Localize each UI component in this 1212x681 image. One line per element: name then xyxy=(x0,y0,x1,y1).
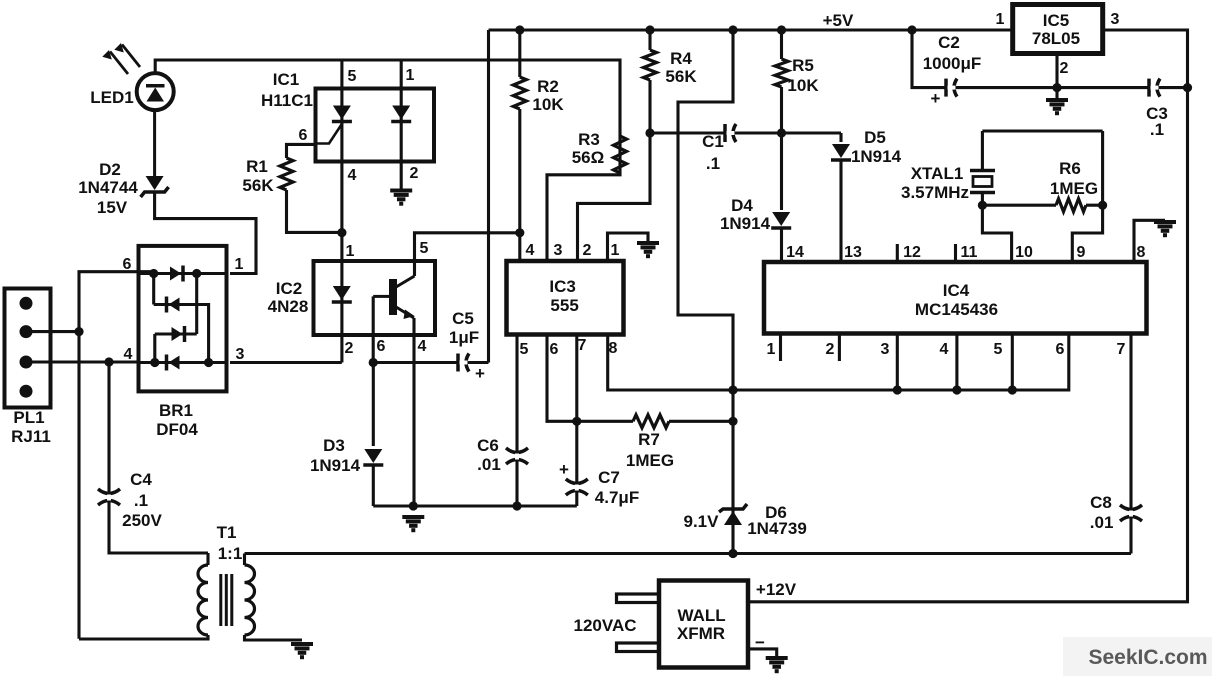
svg-text:R5: R5 xyxy=(792,56,814,75)
junction node xtal left xyxy=(978,201,987,210)
photo-SCR inside IC1 xyxy=(316,106,352,144)
junction node rail/R2/IC3 pin4 xyxy=(515,228,524,237)
pin 8 IC4 to ground xyxy=(1134,220,1165,262)
svg-text:12: 12 xyxy=(903,244,921,261)
svg-text:3.57MHz: 3.57MHz xyxy=(901,183,969,202)
zener D6 1N4739 9.1V xyxy=(684,503,807,538)
capacitor C5 1uF xyxy=(373,309,488,383)
svg-text:10K: 10K xyxy=(787,76,819,95)
wire: bottom ground rail (D3 to C7) xyxy=(373,504,577,507)
svg-text:R7: R7 xyxy=(638,430,660,449)
wire: IC3 pin 6 jog xyxy=(547,335,577,422)
photodiode inside IC2 xyxy=(333,286,351,300)
svg-text:3: 3 xyxy=(881,341,890,358)
junction node R7 right xyxy=(728,417,737,426)
diode D4 1N914 xyxy=(720,133,791,262)
junction node IC5 pin2 / rail xyxy=(1052,83,1061,92)
regulator IC5 78L05 xyxy=(1013,5,1103,54)
wire: C2/C3 rail xyxy=(912,30,1188,88)
svg-text:4: 4 xyxy=(526,242,535,259)
crystal XTAL1 3.57MHz xyxy=(901,131,1103,262)
wire: BR1 row4 pin4-pin3 with diode xyxy=(139,361,227,364)
svg-text:56K: 56K xyxy=(665,67,697,86)
junction node R2 top on +5V bus xyxy=(515,25,524,34)
svg-text:R6: R6 xyxy=(1059,159,1081,178)
svg-text:1: 1 xyxy=(611,242,620,259)
pin 5 IC4 xyxy=(1011,334,1014,391)
svg-text:6: 6 xyxy=(550,341,559,358)
junction node jog top on +5V bus xyxy=(728,25,737,34)
svg-text:1N914: 1N914 xyxy=(720,214,771,233)
svg-text:+12V: +12V xyxy=(756,580,797,599)
svg-text:R2: R2 xyxy=(537,77,559,96)
junction node PL1 riser xyxy=(74,327,83,336)
wire: BR1 inner left drop xyxy=(152,274,155,305)
pin 4 IC4 xyxy=(955,334,958,391)
junction node C4 tap xyxy=(104,357,113,366)
LED LED1 xyxy=(90,43,173,179)
transformer T1 1:1 xyxy=(79,523,302,640)
svg-text:1:1: 1:1 xyxy=(218,544,243,563)
diode D5 1N914 xyxy=(831,128,902,262)
svg-text:4N28: 4N28 xyxy=(268,297,309,316)
svg-text:R4: R4 xyxy=(670,49,692,68)
ground below WALL XFMR xyxy=(766,658,788,671)
wire: IC3 pin 1 to ground xyxy=(608,233,649,261)
wire: IC2 pin 2 to BR1 pin 3 xyxy=(230,361,342,364)
svg-text:1: 1 xyxy=(767,341,776,358)
svg-text:IC3: IC3 xyxy=(549,277,575,296)
svg-text:R3: R3 xyxy=(578,130,600,149)
svg-text:.1: .1 xyxy=(1150,120,1164,139)
junction node R6 right xyxy=(1098,201,1107,210)
junction node D3/C5/IC2 pin6 xyxy=(369,358,378,367)
svg-text:1N914: 1N914 xyxy=(851,147,902,166)
phototransistor inside IC2 xyxy=(373,276,414,319)
svg-text:10: 10 xyxy=(1015,244,1033,261)
pin 3 IC4 xyxy=(896,334,899,391)
junction node pin6/pin7 xyxy=(572,417,581,426)
svg-text:D4: D4 xyxy=(731,196,753,215)
diode inside IC1 right xyxy=(392,106,410,120)
svg-text:1MEG: 1MEG xyxy=(626,451,674,470)
svg-text:4: 4 xyxy=(348,167,357,184)
diode BR1 third row xyxy=(155,274,197,363)
wire: bottom bus T1 to C8 xyxy=(245,552,1132,555)
svg-text:5: 5 xyxy=(348,68,357,85)
junction node C6 bottom xyxy=(512,501,521,510)
svg-text:250V: 250V xyxy=(122,511,162,530)
svg-text:1μF: 1μF xyxy=(449,328,479,347)
svg-text:8: 8 xyxy=(609,340,618,357)
svg-text:C5: C5 xyxy=(452,309,474,328)
svg-text:SeekIC.com: SeekIC.com xyxy=(1088,646,1207,669)
svg-text:.01: .01 xyxy=(477,455,501,474)
svg-text:.1: .1 xyxy=(706,154,720,173)
pin 2 IC4 stub xyxy=(838,334,841,362)
junction node R4/C1 wire xyxy=(645,128,654,137)
svg-text:.1: .1 xyxy=(134,491,148,510)
svg-text:6: 6 xyxy=(299,127,308,144)
resistor R4 56K xyxy=(644,30,698,133)
wire: D2 to BR1 pin 1 xyxy=(155,192,256,274)
capacitor C3 .1 xyxy=(1146,79,1168,139)
svg-text:555: 555 xyxy=(550,296,578,315)
svg-text:13: 13 xyxy=(844,244,862,261)
svg-text:IC5: IC5 xyxy=(1043,11,1069,30)
junction node R5/C1 wire xyxy=(777,128,786,137)
wire: IC1 pin 5 / pin 4 vertical xyxy=(340,60,343,233)
svg-text:C4: C4 xyxy=(130,470,152,489)
wire: +5V jog down to D6 branch xyxy=(678,30,733,554)
SeekIC.com watermark xyxy=(1063,637,1212,676)
resistor R6 1MEG xyxy=(982,131,1102,262)
svg-text:2: 2 xyxy=(583,242,592,259)
junction node D6 bottom on bus xyxy=(728,549,737,558)
wire: IC1 pin 1 vertical xyxy=(400,60,403,190)
resistor R1 56K xyxy=(242,144,341,232)
junction node at IC1 pin4 / R1 / IC2 pin1 xyxy=(337,228,346,237)
svg-text:78L05: 78L05 xyxy=(1032,29,1080,48)
svg-text:H11C1: H11C1 xyxy=(261,91,313,110)
wire: PL1 to BR1 pin 4 xyxy=(26,360,139,363)
svg-text:7: 7 xyxy=(1117,341,1126,358)
svg-text:BR1: BR1 xyxy=(159,401,193,420)
ground below IC5 pin 2 xyxy=(1055,88,1058,99)
svg-text:−: − xyxy=(755,633,765,652)
svg-text:D2: D2 xyxy=(99,160,121,179)
svg-text:4: 4 xyxy=(418,338,427,355)
svg-text:6: 6 xyxy=(123,256,132,273)
wire: R4 bottom to IC3 pin 2 xyxy=(578,133,651,261)
svg-text:.01: .01 xyxy=(1090,513,1114,532)
svg-text:2: 2 xyxy=(826,341,835,358)
wire: IC5 pin 3 to right edge xyxy=(1103,30,1188,88)
wire: PL1 pin to left riser and BR1 pin 6 xyxy=(26,272,154,639)
svg-text:C1: C1 xyxy=(702,132,724,151)
IC U-IC4 MC145436 xyxy=(764,262,1147,334)
svg-text:WALL: WALL xyxy=(678,606,726,625)
svg-text:MC145436: MC145436 xyxy=(915,300,998,319)
svg-text:1N914: 1N914 xyxy=(310,456,361,475)
svg-text:3: 3 xyxy=(1111,11,1120,28)
wire: right edge down to +12V rail xyxy=(748,88,1188,602)
diode BR1 bottom row xyxy=(169,356,180,370)
node 120VAC plug prongs xyxy=(574,594,660,652)
svg-text:C7: C7 xyxy=(598,468,620,487)
ground below rail xyxy=(402,517,424,530)
svg-text:1: 1 xyxy=(996,11,1005,28)
svg-text:9.1V: 9.1V xyxy=(684,512,720,531)
svg-text:IC2: IC2 xyxy=(276,279,302,298)
svg-text:6: 6 xyxy=(1056,341,1065,358)
junction node right edge top xyxy=(1183,83,1192,92)
wire: top rail LED1 to R3 xyxy=(155,60,620,136)
svg-text:9: 9 xyxy=(1077,244,1086,261)
svg-text:1N4744: 1N4744 xyxy=(78,178,138,197)
svg-text:4: 4 xyxy=(124,346,133,363)
timer IC3 555 xyxy=(507,261,624,335)
svg-text:RJ11: RJ11 xyxy=(11,427,51,446)
diode BR1 top row xyxy=(170,267,181,281)
ground at IC4 pin 8 xyxy=(1154,222,1176,235)
wire: BR1 row1 pin6-pin1 xyxy=(139,272,227,275)
pin 11 IC4 stub xyxy=(954,244,957,262)
svg-text:1: 1 xyxy=(346,243,355,260)
capacitor C8 .01 xyxy=(1090,493,1142,532)
svg-text:7: 7 xyxy=(578,337,587,354)
svg-text:+: + xyxy=(475,364,485,383)
diode BR1 second row xyxy=(154,297,209,363)
capacitor C2 1000uF xyxy=(923,33,982,108)
svg-text:10K: 10K xyxy=(532,95,564,114)
wire: IC2 pin 6 down xyxy=(372,296,375,362)
svg-text:D3: D3 xyxy=(323,436,345,455)
svg-text:LED1: LED1 xyxy=(90,88,133,107)
svg-text:XFMR: XFMR xyxy=(677,624,725,643)
ground below IC1 pin 2 xyxy=(390,191,412,204)
svg-text:2: 2 xyxy=(410,165,419,182)
svg-text:120VAC: 120VAC xyxy=(574,616,637,635)
svg-text:2: 2 xyxy=(345,340,354,357)
capacitor C7 4.7uF xyxy=(559,335,639,508)
svg-text:PL1: PL1 xyxy=(13,408,44,427)
capacitor C1 .1 xyxy=(650,124,841,173)
svg-text:8: 8 xyxy=(1137,244,1146,261)
svg-text:XTAL1: XTAL1 xyxy=(911,164,964,183)
svg-text:2: 2 xyxy=(1060,60,1069,77)
junction node pin8 wire / D6 riser xyxy=(728,385,737,394)
svg-text:11: 11 xyxy=(961,244,978,261)
wire: IC2 pin 1 vertical xyxy=(340,233,343,363)
svg-text:+: + xyxy=(931,89,941,108)
svg-text:5: 5 xyxy=(994,341,1003,358)
svg-text:4: 4 xyxy=(940,341,949,358)
junction node ground rail xyxy=(409,501,418,510)
pin 12 IC4 stub xyxy=(896,244,899,262)
svg-text:D5: D5 xyxy=(864,128,886,147)
svg-text:1: 1 xyxy=(235,256,244,273)
resistor R3 56ohm xyxy=(547,130,627,261)
svg-text:IC1: IC1 xyxy=(273,70,299,89)
svg-text:DF04: DF04 xyxy=(156,420,198,439)
wire: IC5 pin 2 down xyxy=(1055,54,1058,88)
wire: +5V bus xyxy=(489,28,1013,31)
junction node C2 top xyxy=(907,25,916,34)
svg-text:5: 5 xyxy=(420,240,429,257)
svg-text:1N4739: 1N4739 xyxy=(747,519,807,538)
connector PL1 RJ11 xyxy=(5,289,51,447)
diode D3 1N914 xyxy=(310,363,383,507)
ground at IC3 pin 1 xyxy=(637,243,659,256)
svg-text:6: 6 xyxy=(377,338,386,355)
junction node R5 top xyxy=(777,25,786,34)
svg-text:1MEG: 1MEG xyxy=(1050,179,1098,198)
svg-text:3: 3 xyxy=(554,242,563,259)
resistor R7 1MEG xyxy=(577,415,733,470)
bridge rectifier BR1 DF04 xyxy=(139,246,227,439)
wire: IC2 pin 4 emitter down to ground rail xyxy=(412,318,415,506)
svg-text:C2: C2 xyxy=(938,33,960,52)
svg-text:3: 3 xyxy=(236,346,245,363)
resistor R2 10K xyxy=(513,30,564,261)
capacitor C4 .1 250V xyxy=(98,362,208,553)
capacitor C6 .01 xyxy=(477,335,528,507)
optocoupler IC2 4N28 xyxy=(268,261,435,335)
ground below T1 secondary xyxy=(291,644,313,657)
svg-text:56K: 56K xyxy=(242,176,274,195)
svg-text:56Ω: 56Ω xyxy=(572,148,605,167)
svg-text:5: 5 xyxy=(520,341,529,358)
wire: C5 riser to +5V bus corner xyxy=(487,30,490,363)
pin 7 IC4 wire down to C8 xyxy=(1129,334,1132,554)
svg-text:1000μF: 1000μF xyxy=(923,54,982,73)
transformer WALL XFMR box xyxy=(659,581,748,668)
wire: IC2 pin 5 to rail xyxy=(415,233,520,276)
svg-text:+5V: +5V xyxy=(823,11,854,30)
optocoupler IC1 H11C1 xyxy=(261,70,434,162)
svg-text:C6: C6 xyxy=(477,436,499,455)
svg-text:R1: R1 xyxy=(246,157,268,176)
pin 1 IC4 stub xyxy=(779,334,782,362)
svg-text:14: 14 xyxy=(786,244,804,261)
wire: IC3 pin 8 to IC4 bottom bus xyxy=(608,334,1069,391)
svg-text:+: + xyxy=(559,460,569,479)
zener D2 1N4744 xyxy=(78,160,168,217)
svg-text:C8: C8 xyxy=(1090,493,1112,512)
junction node R4 top xyxy=(645,25,654,34)
svg-text:4.7μF: 4.7μF xyxy=(595,488,639,507)
wire: XFMR minus lead to ground xyxy=(748,649,777,657)
svg-text:T1: T1 xyxy=(217,523,237,542)
resistor R5 10K xyxy=(775,30,819,133)
svg-text:IC4: IC4 xyxy=(943,281,970,300)
svg-text:15V: 15V xyxy=(97,198,128,217)
svg-text:1: 1 xyxy=(406,67,415,84)
